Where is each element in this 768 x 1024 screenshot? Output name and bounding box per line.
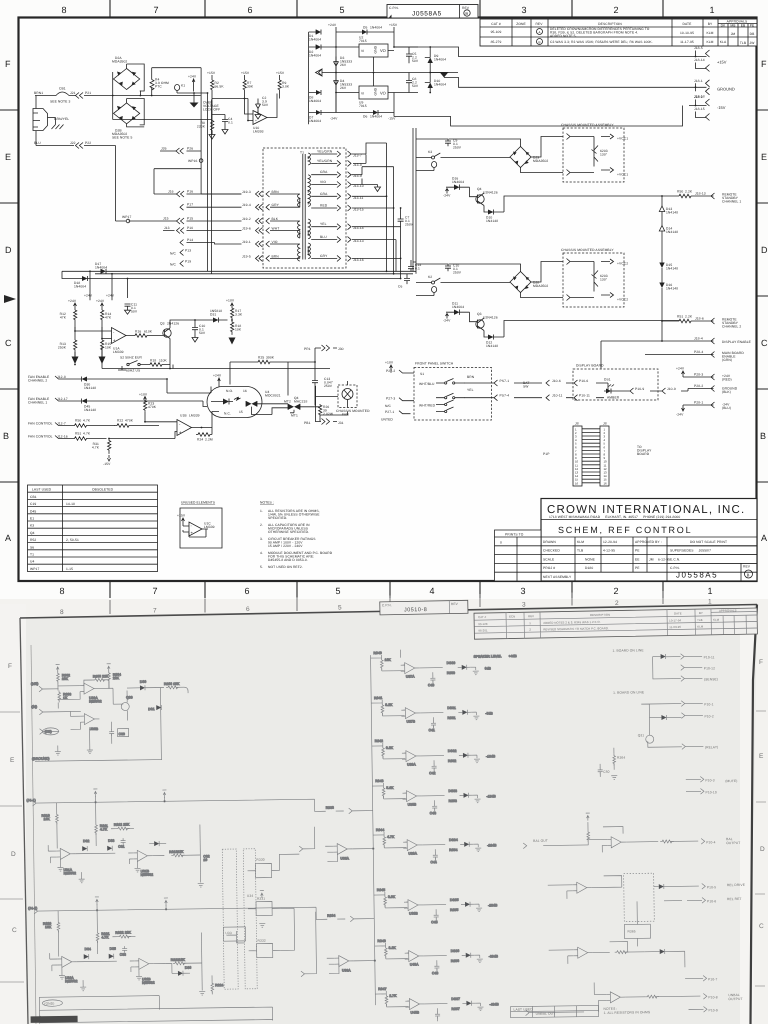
svg-text:P28-1: P28-1	[694, 401, 703, 405]
svg-text:KLM: KLM	[697, 624, 704, 628]
svg-text:GROUND: GROUND	[717, 87, 735, 92]
svg-text:VIO: VIO	[272, 240, 278, 244]
svg-text:(GND): (GND)	[44, 1002, 54, 1006]
wire to meter chain + resistor R334	[337, 916, 374, 922]
svg-text:4.7K: 4.7K	[83, 432, 91, 436]
svg-text:1N4004: 1N4004	[434, 83, 446, 87]
resistor R310	[56, 812, 59, 824]
svg-text:C44: C44	[430, 860, 436, 864]
svg-text:U33: U33	[225, 931, 231, 935]
R26 vertical	[319, 404, 322, 417]
svg-text:YEL: YEL	[320, 222, 327, 226]
svg-text:CHANNEL 1: CHANNEL 1	[28, 401, 47, 405]
ground	[198, 883, 204, 887]
ground	[57, 867, 63, 871]
svg-text:C: C	[759, 923, 764, 930]
primary windings	[298, 194, 300, 261]
svg-text:+24V: +24V	[84, 294, 93, 298]
svg-text:1.: 1.	[260, 509, 263, 513]
svg-text:B: B	[760, 431, 766, 441]
svg-text:R340: R340	[373, 651, 381, 655]
transistor Q30	[121, 702, 129, 710]
feedback wire	[603, 826, 658, 842]
optocoupler U4 MOC8021	[207, 387, 262, 418]
svg-text:EE: EE	[635, 557, 640, 561]
svg-text:F: F	[5, 59, 11, 69]
svg-text:PS7-4: PS7-4	[500, 394, 510, 398]
svg-text:C6: C6	[398, 285, 402, 289]
svg-text:B: B	[3, 431, 9, 441]
svg-text:DRAWN: DRAWN	[543, 540, 556, 544]
svg-text:4.7K: 4.7K	[83, 419, 91, 423]
svg-text:P10-9: P10-9	[635, 387, 644, 391]
svg-text:CAT #: CAT #	[478, 615, 487, 619]
resistor R17	[231, 303, 234, 320]
svg-text:REV: REV	[743, 565, 751, 569]
zener D4	[334, 73, 339, 94]
svg-text:6-12-95: 6-12-95	[655, 557, 670, 561]
svg-text:2: 2	[613, 586, 618, 596]
svg-text:NEXT ASSEMBLY: NEXT ASSEMBLY	[543, 575, 572, 579]
diode D41	[660, 949, 665, 954]
svg-text:OUTPUT: OUTPUT	[726, 841, 740, 845]
svg-text:1N4148: 1N4148	[486, 219, 498, 223]
revision table top right	[480, 19, 757, 46]
svg-text:2.2K: 2.2K	[685, 315, 693, 319]
svg-text:3.: 3.	[260, 537, 263, 541]
diode D31	[213, 318, 219, 323]
svg-text:J19-4: J19-4	[242, 203, 251, 207]
open arrow ground on winding return	[375, 185, 381, 192]
svg-text:1N4004: 1N4004	[452, 180, 464, 184]
wires	[592, 876, 622, 888]
svg-text:-24V: -24V	[443, 194, 451, 198]
svg-text:BLU: BLU	[34, 141, 41, 145]
ground	[59, 975, 65, 979]
svg-text:DS37: DS37	[451, 997, 460, 1001]
secondary output routing	[352, 143, 401, 279]
open arrow gnd	[316, 69, 323, 76]
svg-text:+15V: +15V	[177, 514, 186, 518]
svg-text:J16: J16	[168, 190, 174, 194]
remote standby channel 2 row	[661, 320, 663, 322]
svg-text:GRN/YEL: GRN/YEL	[54, 117, 69, 121]
svg-text:D31: D31	[148, 707, 154, 711]
op-amp U44A	[606, 992, 625, 1003]
svg-text:+24V: +24V	[68, 299, 77, 303]
connector BAL OUT input	[523, 843, 527, 849]
svg-text:R353: R353	[449, 799, 457, 803]
svg-text:P27-1: P27-1	[385, 410, 394, 414]
title block	[541, 499, 757, 582]
svg-text:KLM: KLM	[706, 40, 713, 44]
svg-text:(BLK): (BLK)	[722, 390, 731, 394]
svg-text:250V: 250V	[453, 271, 462, 275]
svg-text:8: 8	[61, 5, 66, 15]
svg-text:CHECKED: CHECKED	[543, 549, 560, 553]
VCA dotted enclosure U34	[243, 849, 257, 989]
svg-text:DESCRIPTION: DESCRIPTION	[590, 613, 610, 617]
svg-text:C43: C43	[430, 811, 436, 815]
svg-text:10K: 10K	[44, 817, 51, 821]
C.P.N. title box top	[387, 5, 478, 19]
diode D6 bottom	[373, 110, 378, 115]
svg-text:P10-10: P10-10	[705, 790, 716, 794]
ground	[199, 991, 205, 995]
svg-text:LM339: LM339	[189, 414, 200, 418]
svg-text:F: F	[761, 59, 767, 69]
svg-text:TLB: TLB	[697, 618, 703, 622]
svg-text:P10-6: P10-6	[579, 379, 588, 383]
svg-text:DS32: DS32	[448, 749, 457, 753]
resistor R4 PTC	[150, 68, 154, 90]
svg-text:470K: 470K	[125, 419, 134, 423]
svg-text:EB: EB	[741, 24, 746, 28]
svg-text:REV: REV	[462, 6, 470, 10]
resistor R306	[166, 686, 180, 689]
svg-text:BRN: BRN	[272, 254, 280, 258]
svg-text:P27-2: P27-2	[386, 369, 395, 373]
svg-text:C: C	[761, 338, 768, 348]
svg-text:K1: K1	[181, 84, 185, 88]
svg-text:3: 3	[522, 602, 526, 609]
svg-text:-15dB: -15dB	[487, 794, 497, 798]
svg-text:J19-5: J19-5	[242, 254, 251, 258]
svg-text:E: E	[759, 753, 764, 760]
prints-to table	[495, 530, 542, 581]
svg-text:Q3: Q3	[477, 312, 482, 316]
svg-text:1718 WEST MISHAWAKA ROAD E: 1718 WEST MISHAWAKA ROAD ELKHART, IN. 46…	[549, 515, 680, 519]
secondary chevrons	[337, 151, 351, 261]
svg-text:AMBER: AMBER	[607, 396, 620, 400]
svg-text:MT2: MT2	[284, 400, 291, 404]
svg-text:C.P.N.: C.P.N.	[389, 6, 399, 10]
wire	[684, 951, 686, 967]
bus wire C	[62, 271, 401, 278]
svg-text:1N4148: 1N4148	[486, 344, 498, 348]
svg-text:R357: R357	[451, 1007, 459, 1011]
svg-text:1N4148: 1N4148	[666, 267, 678, 271]
zone letters left	[3, 59, 12, 543]
op-amp U35A feeder	[325, 843, 373, 862]
diode D36	[178, 971, 183, 976]
svg-text:R355: R355	[450, 908, 458, 912]
svg-text:J8: J8	[575, 422, 579, 426]
svg-text:+15V: +15V	[207, 71, 216, 75]
meter stage 7: R346, U40A, DS36, C46	[375, 942, 483, 975]
R25	[255, 360, 273, 364]
wire from opto right to triac	[262, 404, 288, 415]
row J15/P15	[129, 220, 242, 222]
svg-text:BRN: BRN	[467, 375, 475, 379]
svg-text:6: 6	[247, 5, 252, 15]
svg-text:(MB): (MB)	[31, 682, 39, 686]
svg-text:+VCC2: +VCC2	[617, 262, 628, 266]
svg-text:1N4004: 1N4004	[370, 115, 382, 119]
resistor R312	[116, 827, 130, 830]
op-amp U1C	[189, 522, 202, 536]
svg-text:J0510-8: J0510-8	[404, 607, 427, 613]
svg-text:YEL: YEL	[467, 388, 474, 392]
coil	[416, 287, 437, 296]
diode D34	[84, 954, 89, 959]
resistor network R330	[247, 863, 279, 877]
svg-text:PE: PE	[635, 566, 640, 570]
svg-text:8.2K: 8.2K	[385, 703, 393, 707]
row N/C P19	[180, 261, 184, 267]
svg-text:+18V: +18V	[385, 361, 394, 365]
svg-text:KLM: KLM	[577, 540, 584, 544]
meter stage 1: resistor R340, op-amp U37A, LED DS30, capacitor C40, ground	[371, 654, 479, 687]
svg-text:U39B: U39B	[409, 911, 418, 915]
svg-text:GRA: GRA	[320, 192, 328, 196]
svg-text:R50: R50	[677, 190, 683, 194]
cap C4	[212, 115, 228, 130]
diode D12	[488, 335, 494, 340]
resistor network R332	[249, 943, 281, 957]
svg-text:WHT/RED: WHT/RED	[419, 404, 436, 408]
svg-text:C30: C30	[119, 732, 125, 736]
resistor R13 250K	[74, 327, 77, 356]
svg-text:SUPERSEDES J0558/7: SUPERSEDES J0558/7	[670, 549, 711, 553]
svg-text:J8: J8	[603, 422, 607, 426]
svg-text:1N4004: 1N4004	[74, 285, 86, 289]
svg-text:J15: J15	[163, 217, 169, 221]
svg-text:U38B: U38B	[408, 802, 417, 806]
op-amp U32A	[58, 956, 77, 967]
svg-text:R18: R18	[150, 359, 156, 363]
svg-text:3: 3	[520, 586, 525, 596]
svg-text:MAC218: MAC218	[294, 400, 307, 404]
row N/C P13	[180, 250, 184, 256]
capacitor C14	[408, 260, 414, 271]
svg-text:PE: PE	[635, 549, 640, 553]
svg-text:NONE: NONE	[585, 557, 596, 561]
svg-text:D34: D34	[85, 947, 91, 951]
svg-text:SPEAKER LEVEL: SPEAKER LEVEL	[474, 654, 502, 658]
connector J22/P22	[76, 143, 84, 149]
svg-text:-10dB: -10dB	[486, 754, 496, 758]
svg-text:D45: D45	[30, 509, 36, 513]
connector P10-4	[701, 838, 705, 844]
svg-text:1N4148: 1N4148	[666, 211, 678, 215]
diode D30	[140, 685, 145, 690]
svg-text:MB: MB	[730, 24, 736, 28]
svg-text:P10-4: P10-4	[706, 840, 715, 844]
svg-text:+24V: +24V	[96, 299, 105, 303]
svg-text:Q31: Q31	[638, 733, 645, 737]
resistor R8 220K	[211, 115, 214, 135]
resistor R305 feedback	[93, 678, 107, 681]
svg-text:1. BOARD ON LINE: 1. BOARD ON LINE	[612, 648, 644, 652]
svg-text:1N4004: 1N4004	[452, 305, 464, 309]
svg-text:16: 16	[243, 389, 247, 393]
svg-text:12-20-94: 12-20-94	[603, 540, 617, 544]
svg-text:+24V: +24V	[188, 75, 197, 79]
+V supply arrow	[162, 790, 166, 798]
svg-text:TLB: TLB	[740, 41, 747, 45]
svg-text:P21: P21	[85, 91, 91, 95]
svg-text:LAST USED: LAST USED	[32, 488, 52, 492]
svg-text:R347: R347	[378, 987, 386, 991]
primary lead wires	[270, 194, 300, 258]
svg-text:SW: SW	[523, 385, 529, 389]
svg-text:-15V: -15V	[717, 105, 726, 110]
svg-text:K3: K3	[428, 150, 432, 154]
svg-text:N/C: N/C	[385, 404, 391, 408]
page2 frame borders	[20, 605, 757, 619]
svg-text:U4: U4	[30, 560, 34, 564]
svg-text:DO NOT SCALE PRINT: DO NOT SCALE PRINT	[690, 540, 727, 544]
diode chain 1	[661, 195, 663, 197]
svg-text:J31: J31	[338, 421, 344, 425]
row J13/P10	[163, 230, 242, 232]
svg-text:DS1: DS1	[604, 378, 611, 382]
resistor R311	[95, 823, 98, 835]
ground	[136, 976, 142, 980]
resistor R18 110K	[118, 363, 173, 370]
svg-text:5: 5	[338, 605, 342, 612]
svg-text:C31: C31	[118, 845, 124, 849]
svg-text:P28-2: P28-2	[694, 384, 703, 388]
svg-text:C42: C42	[429, 771, 435, 775]
ground	[87, 750, 93, 754]
svg-text:+: +	[255, 119, 257, 123]
svg-text:R344: R344	[376, 828, 384, 832]
svg-text:250V: 250V	[405, 223, 414, 227]
svg-text:14-18: 14-18	[66, 502, 75, 506]
svg-text:1N4004: 1N4004	[434, 58, 446, 62]
svg-text:CB1: CB1	[30, 495, 37, 499]
svg-text:N.O.: N.O.	[226, 389, 233, 393]
svg-text:J19-2: J19-2	[242, 217, 251, 221]
svg-text:22K: 22K	[113, 676, 120, 680]
J18-2 / J18-15 pair	[696, 99, 710, 121]
feedback wire	[610, 942, 628, 953]
svg-text:+VCC2: +VCC2	[617, 298, 628, 302]
svg-text:P15: P15	[187, 217, 193, 221]
svg-text:2.2K: 2.2K	[685, 190, 693, 194]
svg-text:P10-11: P10-11	[579, 394, 590, 398]
svg-text:BY: BY	[708, 22, 713, 26]
svg-text:2: 2	[613, 5, 618, 15]
svg-text:OTHERWISE SPECIFIED.: OTHERWISE SPECIFIED.	[268, 530, 309, 534]
svg-text:130°: 130°	[600, 153, 608, 157]
svg-text:C41: C41	[429, 728, 435, 732]
svg-text:LM339: LM339	[113, 350, 124, 354]
feedback loop rect R365	[624, 924, 650, 938]
svg-text:J26: J26	[161, 147, 167, 151]
svg-text:4.7K: 4.7K	[387, 835, 395, 839]
svg-text:P17: P17	[187, 203, 193, 207]
svg-text:5: 5	[339, 5, 344, 15]
svg-text:WHT: WHT	[272, 227, 280, 231]
svg-text:J19-3: J19-3	[242, 190, 251, 194]
svg-text:J22: J22	[70, 141, 76, 145]
svg-text:R22: R22	[117, 419, 123, 423]
svg-text:NE5532: NE5532	[64, 871, 77, 875]
svg-text:1. ALL RESISTORS IN OHMS: 1. ALL RESISTORS IN OHMS	[604, 1010, 651, 1015]
svg-text:YEL/GRN: YEL/GRN	[317, 150, 333, 154]
svg-text:FAN CONTROL: FAN CONTROL	[28, 435, 53, 439]
vertical feed bus wire	[370, 650, 405, 1005]
regulator U9 7915	[359, 86, 388, 99]
svg-text:DS30: DS30	[447, 661, 456, 665]
zone numbers page2	[60, 599, 712, 617]
op-amp U41A	[607, 837, 626, 848]
svg-text:R343: R343	[375, 779, 383, 783]
svg-text:D: D	[760, 846, 765, 853]
capacitor C31	[121, 838, 126, 845]
svg-text:J10-9: J10-9	[667, 387, 676, 391]
top right connector rows	[612, 647, 718, 682]
svg-text:(J4-1): (J4-1)	[27, 798, 36, 802]
zone ticks top	[0, 0, 768, 598]
svg-text:95-201: 95-201	[478, 628, 488, 632]
connector J4-2 input + wire	[34, 904, 327, 923]
svg-text:S1: S1	[420, 372, 424, 376]
svg-text:MDA3502: MDA3502	[112, 60, 127, 64]
meter stage 8: R347, U40B, DS37	[375, 990, 483, 1023]
svg-text:50V: 50V	[199, 331, 206, 335]
connector J21/P21	[76, 93, 84, 99]
cap C9	[445, 141, 451, 146]
svg-text:C19: C19	[30, 502, 36, 506]
svg-text:D5: D5	[363, 26, 367, 30]
svg-text:P16: P16	[187, 190, 193, 194]
svg-text:(RELAY): (RELAY)	[705, 745, 719, 749]
svg-text:4.7K: 4.7K	[101, 935, 109, 939]
svg-text:U39A: U39A	[408, 851, 417, 855]
svg-text:-40dB: -40dB	[489, 1002, 499, 1006]
svg-text:NE5532: NE5532	[141, 873, 154, 877]
svg-text:3: 3	[521, 5, 526, 15]
svg-text:P27-3: P27-3	[386, 397, 395, 401]
connector UNBAL OUT input + wire	[526, 1009, 585, 1015]
ground	[80, 987, 86, 991]
resistor R320	[57, 920, 60, 932]
svg-text:VI: VI	[361, 49, 364, 53]
svg-text:470K: 470K	[148, 405, 157, 409]
op-amp U1A	[112, 328, 127, 344]
svg-text:15: 15	[239, 410, 243, 414]
svg-text:CHASSIS MOUNTED ASSEMBLY: CHASSIS MOUNTED ASSEMBLY	[561, 248, 614, 252]
svg-text:KLM: KLM	[706, 31, 713, 35]
svg-text:1N4004: 1N4004	[370, 26, 382, 30]
bus wire B	[95, 273, 413, 275]
svg-text:R341: R341	[374, 696, 382, 700]
svg-text:U34: U34	[247, 894, 253, 898]
svg-text:NE5532: NE5532	[89, 699, 102, 703]
svg-text:CHANNEL 2: CHANNEL 2	[722, 325, 741, 329]
svg-text:SEE NOTE 3: SEE NOTE 3	[50, 100, 70, 104]
connector MAIN	[40, 1016, 44, 1022]
ground row	[688, 386, 715, 392]
revision table page2	[474, 608, 757, 639]
svg-text:7815: 7815	[359, 39, 367, 43]
svg-text:85-279: 85-279	[491, 40, 502, 44]
svg-text:B: B	[747, 572, 750, 577]
svg-text:F: F	[759, 659, 763, 666]
connector P10-10	[686, 788, 704, 794]
row J16/P16	[154, 169, 242, 194]
relay K1 contact	[175, 85, 195, 94]
resistor R2 66.5K	[211, 80, 214, 99]
svg-text:E: E	[761, 152, 767, 162]
svg-text:P10-8: P10-8	[708, 995, 717, 999]
J18-5 / J18-14 pair	[696, 50, 710, 72]
svg-text:CHASSIS MOUNTED ASSEMBLY: CHASSIS MOUNTED ASSEMBLY	[561, 123, 614, 127]
